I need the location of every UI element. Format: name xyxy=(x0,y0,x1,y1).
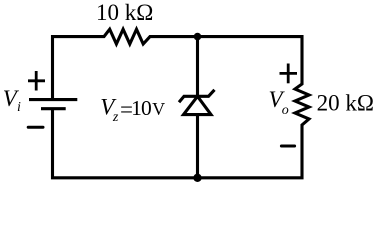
svg-text:V: V xyxy=(152,99,165,119)
svg-text:i: i xyxy=(17,100,21,115)
svg-text:10: 10 xyxy=(131,96,151,120)
svg-text:z: z xyxy=(112,110,119,125)
svg-text:20 kΩ: 20 kΩ xyxy=(317,91,374,116)
svg-text:10 kΩ: 10 kΩ xyxy=(96,0,153,25)
svg-text:o: o xyxy=(282,103,289,118)
